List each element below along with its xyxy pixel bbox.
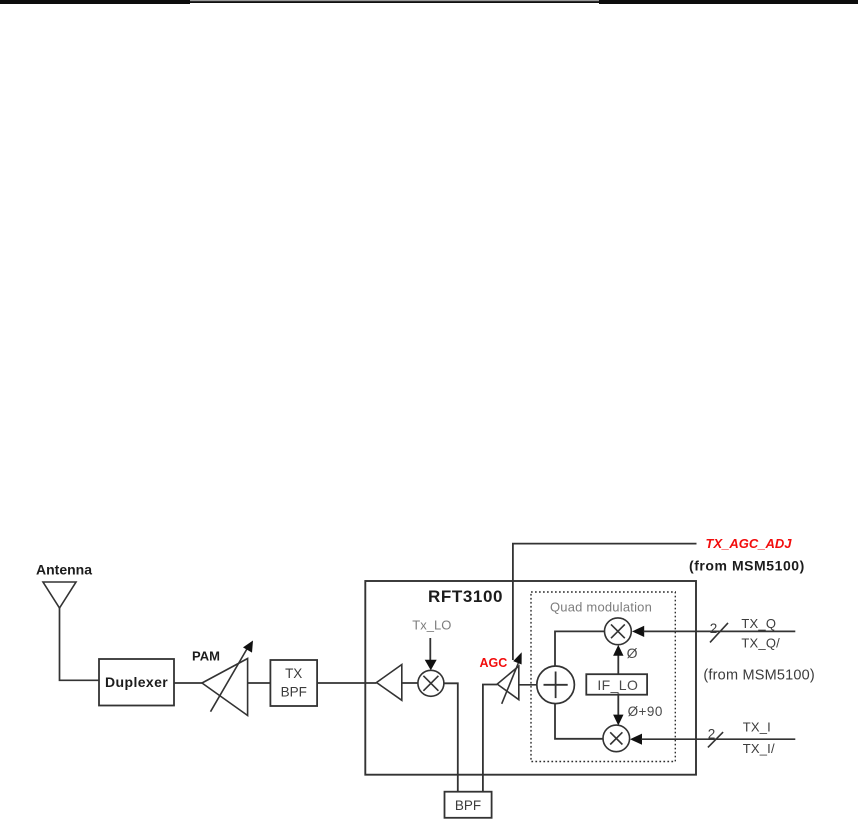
block BPF <box>445 792 492 818</box>
svg-text:TX: TX <box>285 666 302 681</box>
arrow into mixer M2 <box>632 626 795 637</box>
svg-text:2: 2 <box>710 621 718 636</box>
wire BPF up to AGC amp <box>483 685 497 792</box>
svg-text:AGC: AGC <box>480 656 508 670</box>
svg-text:TX_I/: TX_I/ <box>743 741 775 756</box>
svg-text:TX_Q/: TX_Q/ <box>741 635 780 650</box>
block Duplexer <box>99 659 174 706</box>
svg-text:RFT3100: RFT3100 <box>428 587 503 606</box>
svg-text:TX_AGC_ADJ: TX_AGC_ADJ <box>706 536 793 551</box>
amplifier AGC <box>497 666 519 700</box>
wire summer to mixer M2 <box>555 631 604 666</box>
svg-text:(from MSM5100): (from MSM5100) <box>689 558 805 574</box>
wire Duplexer to PAM <box>174 682 202 684</box>
svg-text:IF_LO: IF_LO <box>597 677 638 693</box>
svg-text:TX_I: TX_I <box>743 720 771 735</box>
IF_LO arrow down to mixer M3 <box>613 693 623 725</box>
bus slash 2 (Q) <box>710 621 728 642</box>
PAM gain arrow <box>211 641 254 712</box>
svg-text:BPF: BPF <box>455 798 481 813</box>
AGC gain arrow <box>502 652 522 704</box>
svg-text:Quad modulation: Quad modulation <box>550 599 652 614</box>
svg-text:Antenna: Antenna <box>36 562 92 578</box>
block IF_LO <box>586 674 647 695</box>
wire AGC amp to summer <box>519 684 536 686</box>
bus slash 2 (I) <box>708 727 723 748</box>
svg-text:2: 2 <box>708 727 716 742</box>
amplifier PAM <box>202 659 248 716</box>
svg-text:(from MSM5100): (from MSM5100) <box>703 667 815 683</box>
mixer M2 <box>605 618 632 645</box>
wire antenna to Duplexer <box>60 608 100 680</box>
antenna <box>43 582 76 608</box>
wire amp to mixer M1 <box>402 682 418 684</box>
mixer M3 <box>603 725 630 752</box>
wire mixer M1 to BPF (down) <box>444 683 458 791</box>
wire summer to mixer M3 <box>555 704 603 739</box>
svg-text:Tx_LO: Tx_LO <box>412 618 451 633</box>
IF_LO arrow up to mixer M2 <box>613 645 623 675</box>
block RFT3100 outline <box>365 581 696 775</box>
wire TX_AGC_ADJ <box>513 544 697 660</box>
amplifier U1 <box>377 665 402 701</box>
arrow into mixer M3 <box>630 734 795 745</box>
summer S1 <box>537 666 575 704</box>
block TX BPF <box>270 660 317 706</box>
svg-text:TX_Q: TX_Q <box>741 616 776 631</box>
wire PAM to TX BPF <box>248 682 271 684</box>
wire TX BPF to RFT3100 amp <box>317 682 376 684</box>
svg-text:PAM: PAM <box>192 649 220 664</box>
top scan bar <box>0 0 858 4</box>
dotted box Quad modulation <box>531 592 675 762</box>
svg-text:BPF: BPF <box>281 685 307 700</box>
svg-text:Duplexer: Duplexer <box>105 674 168 690</box>
Tx_LO arrow into mixer <box>425 638 437 670</box>
svg-text:Ø: Ø <box>627 645 638 661</box>
svg-text:Ø+90: Ø+90 <box>628 704 663 719</box>
mixer M1 <box>418 670 444 696</box>
